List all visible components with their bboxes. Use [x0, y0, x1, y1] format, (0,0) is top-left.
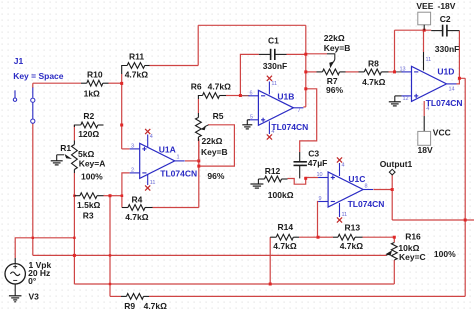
- potentiometer R7: [323, 69, 340, 75]
- source V3 sine: [10, 272, 20, 276]
- source V3 lead top: [14, 258, 16, 264]
- svg-text:10: 10: [317, 172, 323, 178]
- output terminal Output1: [389, 169, 395, 175]
- svg-text:12: 12: [403, 96, 409, 102]
- capacitor C1 leads: [259, 53, 271, 55]
- op-amp U1C pin4 stub: [339, 163, 341, 176]
- junction C1 left: [239, 94, 242, 97]
- junction U1D minus: [393, 70, 396, 73]
- potentiometer R1 leads: [73, 141, 75, 145]
- potentiometer R1 wiper: [57, 154, 64, 156]
- svg-text:TL074CN: TL074CN: [426, 98, 463, 108]
- op-amp U1A pin4 X: [145, 129, 150, 134]
- op-amp U1C pin11 stub: [339, 203, 341, 217]
- svg-text:4: 4: [342, 163, 345, 169]
- svg-text:C2: C2: [440, 14, 451, 24]
- wire V3 top: [15, 238, 74, 258]
- svg-text:V3: V3: [29, 291, 40, 301]
- svg-text:C3: C3: [308, 149, 319, 159]
- wire bottom-left corner to R9: [110, 295, 121, 297]
- wire bottom rail: [74, 283, 394, 285]
- VEE rail box: [418, 12, 431, 25]
- svg-text:TL074CN: TL074CN: [271, 122, 308, 132]
- svg-text:R1: R1: [60, 143, 71, 153]
- junction node B corner: [121, 194, 124, 197]
- resistor R2: [81, 122, 98, 128]
- node A vertical: [121, 74, 123, 149]
- svg-text:4.7kΩ: 4.7kΩ: [273, 241, 297, 251]
- wire U1D pin4 upper: [423, 101, 425, 116]
- svg-text:47µF: 47µF: [308, 158, 328, 168]
- svg-text:R4: R4: [132, 195, 143, 205]
- potentiometer R5: [196, 118, 202, 138]
- resistor R11 leads: [122, 66, 128, 75]
- svg-text:-18V: -18V: [438, 1, 456, 11]
- wire C1 right to node C: [287, 53, 306, 55]
- svg-text:U1D: U1D: [437, 67, 454, 77]
- wire R16 top: [393, 237, 395, 242]
- svg-text:Key=B: Key=B: [324, 43, 351, 53]
- svg-text:96%: 96%: [326, 85, 343, 95]
- svg-text:11: 11: [426, 57, 432, 63]
- svg-text:R2: R2: [83, 111, 94, 121]
- svg-text:9: 9: [319, 196, 322, 202]
- svg-text:4: 4: [150, 134, 153, 140]
- svg-text:330nF: 330nF: [435, 44, 460, 54]
- svg-text:Key=C: Key=C: [399, 252, 426, 262]
- svg-text:11: 11: [271, 81, 277, 87]
- resistor R11: [127, 63, 144, 69]
- wire node A to U1A pin3: [122, 148, 130, 150]
- wire R13 left wire: [318, 236, 333, 238]
- op-amp U1D pin11 stub: [423, 52, 425, 70]
- junction C1 right: [304, 53, 307, 56]
- resistor R6: [203, 93, 220, 99]
- ground U1D plus: [395, 95, 402, 97]
- svg-text:TL074CN: TL074CN: [348, 199, 385, 209]
- wire node B horizontal: [110, 195, 122, 197]
- resistor R12: [265, 176, 282, 182]
- wire U1C out: [374, 189, 393, 191]
- wire U1B out to node C: [303, 106, 305, 108]
- wire C2 right drop: [458, 31, 460, 79]
- wire node B vertical to R9: [109, 196, 111, 297]
- svg-text:J1: J1: [14, 56, 24, 66]
- svg-text:R8: R8: [368, 59, 379, 69]
- wire R11 right to top rail corner: [150, 65, 199, 67]
- wire VEE rail: [395, 29, 432, 31]
- svg-text:U1A: U1A: [159, 145, 176, 155]
- wire R14 right wire: [299, 236, 318, 238]
- wire R1 bottom to R3: [73, 173, 75, 196]
- svg-text:R9: R9: [124, 301, 135, 311]
- wire R7 wiper drop: [306, 53, 327, 55]
- svg-text:3: 3: [131, 143, 134, 149]
- junction R5 wiper: [197, 165, 200, 168]
- op-amp U1C: [328, 172, 363, 207]
- wire R12 jog to U1C plus: [288, 178, 319, 185]
- svg-text:Key=A: Key=A: [79, 159, 106, 169]
- capacitor C2 plates: [442, 25, 444, 37]
- resistor R2 leads: [74, 125, 80, 127]
- svg-text:1kΩ: 1kΩ: [84, 89, 100, 99]
- svg-text:Key=B: Key=B: [201, 147, 228, 157]
- svg-text:TL074CN: TL074CN: [160, 169, 197, 179]
- switch J1 left pin: [14, 90, 16, 97]
- svg-text:22kΩ: 22kΩ: [202, 136, 223, 146]
- wire node B down to R4: [121, 196, 123, 208]
- wire R10 right to node A: [109, 82, 122, 84]
- wire J1 top to R10: [33, 82, 81, 84]
- resistor R9 leads: [121, 295, 127, 297]
- wire J1 top corner: [32, 83, 34, 88]
- op-amp U1A pin4 stub: [147, 135, 149, 148]
- junction node B: [109, 194, 112, 197]
- resistor R13 leads: [333, 236, 338, 238]
- svg-text:330nF: 330nF: [263, 61, 288, 71]
- junction U1B out branch: [304, 87, 307, 90]
- svg-text:2: 2: [131, 167, 134, 173]
- svg-text:1.5kΩ: 1.5kΩ: [77, 200, 101, 210]
- svg-text:Key = Space: Key = Space: [13, 71, 64, 81]
- wire R6 right to node C2: [226, 95, 240, 97]
- wire R7-R8 link: [346, 71, 359, 73]
- potentiometer R5 leads: [197, 113, 199, 118]
- svg-text:22kΩ: 22kΩ: [324, 33, 345, 43]
- svg-text:100kΩ: 100kΩ: [268, 190, 294, 200]
- svg-text:C1: C1: [268, 35, 279, 45]
- potentiometer R1: [72, 145, 78, 170]
- junction U1C plus: [304, 177, 307, 180]
- wire U1D- riser: [394, 30, 396, 72]
- source V3 minus: [13, 279, 17, 281]
- junction R3 left: [73, 195, 75, 197]
- svg-text:8: 8: [365, 184, 368, 190]
- svg-text:11: 11: [150, 180, 156, 186]
- capacitor C2 leads: [431, 30, 442, 32]
- wire R5 top to R6 corner: [197, 99, 199, 113]
- op-amp U1A pin11 X: [145, 185, 150, 190]
- resistor R13: [338, 234, 355, 240]
- wire top rail: [198, 24, 306, 26]
- resistor R14: [276, 234, 293, 240]
- wire Output1 drop: [391, 175, 393, 220]
- svg-text:11: 11: [342, 212, 348, 218]
- wire U1C minus riser: [317, 202, 320, 238]
- svg-text:R3: R3: [83, 211, 94, 221]
- source V3 circle: [5, 264, 25, 284]
- junction R13 R14 U1C minus: [317, 236, 320, 239]
- svg-text:R10: R10: [87, 70, 103, 80]
- svg-text:7: 7: [298, 108, 301, 114]
- svg-text:R5: R5: [213, 111, 224, 121]
- op-amp U1B: [258, 90, 293, 125]
- svg-text:4.7kΩ: 4.7kΩ: [144, 301, 168, 311]
- junction U1A output: [197, 159, 200, 162]
- ground R1 wiper: [56, 155, 58, 161]
- svg-text:U1C: U1C: [348, 174, 365, 184]
- svg-text:4.7kΩ: 4.7kΩ: [362, 77, 386, 87]
- ground U1B plus: [247, 119, 250, 121]
- junction U1C out: [391, 188, 394, 191]
- junction VEE lead: [423, 29, 426, 32]
- junction R2 node A: [120, 124, 123, 127]
- wire R3 left riser down: [73, 196, 75, 284]
- resistor R14 leads: [270, 236, 276, 238]
- wire middle rail J1 to R16 wiper: [33, 254, 387, 256]
- capacitor C3 leads: [299, 152, 301, 162]
- wire R2 left riser: [73, 125, 75, 141]
- svg-text:5: 5: [250, 114, 253, 120]
- svg-text:6: 6: [250, 90, 253, 96]
- wire R9 right rail: [149, 295, 465, 297]
- wire U1A pin2 to node B: [122, 173, 130, 196]
- ground V3: [9, 295, 22, 297]
- resistor R8 leads: [359, 71, 365, 73]
- svg-text:VCC: VCC: [433, 128, 451, 138]
- wire R5 bottom: [198, 141, 200, 161]
- op-amp U1B pin4 X: [267, 134, 272, 139]
- svg-text:U1B: U1B: [277, 92, 294, 102]
- wire R4 right to U1A out riser: [153, 207, 199, 209]
- switch J1 poles: [31, 98, 35, 102]
- resistor R4 leads: [122, 207, 128, 209]
- svg-text:R14: R14: [278, 222, 294, 232]
- svg-text:0°: 0°: [28, 276, 37, 286]
- resistor R10: [87, 80, 103, 86]
- op-amp U1C pin11 X: [337, 217, 342, 222]
- potentiometer R5 wiper: [205, 125, 209, 127]
- svg-text:5kΩ: 5kΩ: [78, 149, 94, 159]
- svg-text:100%: 100%: [81, 172, 103, 182]
- svg-text:100%: 100%: [434, 249, 456, 259]
- svg-text:14: 14: [449, 87, 455, 93]
- svg-text:18V: 18V: [418, 145, 433, 155]
- wire right edge vertical: [464, 78, 466, 296]
- svg-text:Output1: Output1: [380, 159, 413, 169]
- svg-text:R16: R16: [405, 231, 421, 241]
- op-amp U1D: [412, 66, 447, 101]
- switch J1 blade: [32, 88, 34, 98]
- svg-text:R11: R11: [129, 51, 144, 61]
- svg-text:4.7kΩ: 4.7kΩ: [125, 70, 149, 80]
- ground R12: [257, 179, 259, 184]
- junction V3 J1 cross: [32, 237, 34, 239]
- resistor R3 leads: [74, 195, 80, 197]
- resistor R8: [364, 69, 381, 75]
- wire U1A out riser: [198, 139, 200, 208]
- op-amp U1B pin4 stub: [268, 121, 270, 134]
- wire Output1 rail right: [392, 219, 474, 221]
- wire J1 bottom: [32, 124, 34, 256]
- svg-text:R6: R6: [191, 81, 202, 91]
- wire top-rail riser: [197, 25, 199, 65]
- svg-text:4.7kΩ: 4.7kΩ: [208, 81, 232, 91]
- capacitor C3 plates: [294, 161, 307, 163]
- op-amp U1B pin11 X: [267, 76, 272, 81]
- potentiometer R7 leads: [317, 71, 323, 73]
- resistor R9: [127, 294, 144, 300]
- wire R3 right to node B: [104, 195, 111, 197]
- svg-text:R13: R13: [345, 223, 361, 233]
- svg-text:120Ω: 120Ω: [78, 129, 99, 139]
- junction input rail nodeB riser: [109, 254, 111, 256]
- wire R13 right wire: [363, 236, 395, 238]
- wire U1B out branch to C3: [300, 89, 317, 152]
- junction R13 R16: [393, 236, 396, 239]
- source V3 lead bottom: [14, 284, 16, 296]
- resistor R6 leads: [198, 96, 202, 100]
- wire R14 left riser: [269, 237, 271, 284]
- wire node C2 to U1B minus: [240, 95, 249, 97]
- svg-text:4.7kΩ: 4.7kΩ: [125, 212, 149, 222]
- junction R14 riser bottom: [269, 283, 272, 286]
- wire U1D out: [457, 78, 466, 84]
- op-amp U1A: [140, 143, 175, 178]
- resistor R3: [80, 193, 97, 199]
- resistor R12 leads: [258, 178, 264, 180]
- wire C1 left riser: [240, 54, 258, 95]
- source V3 plus: [13, 266, 17, 268]
- op-amp U1C pin4 X: [337, 157, 342, 162]
- potentiometer R16: [391, 243, 397, 261]
- svg-text:4.7kΩ: 4.7kΩ: [340, 241, 364, 251]
- junction bottom rail nodeB riser: [109, 283, 111, 285]
- wire U1D minus lead link: [395, 71, 403, 73]
- resistor R10 leads: [81, 82, 87, 84]
- svg-text:VEE: VEE: [416, 1, 433, 11]
- VCC rail box: [423, 116, 425, 131]
- junction input rail V-chain: [73, 254, 76, 257]
- wire R7 left lead wire: [306, 71, 317, 73]
- wire R5 wiper loop: [199, 125, 235, 166]
- junction V3 corner: [73, 237, 75, 239]
- op-amp U1A pin11 stub: [147, 174, 149, 185]
- svg-text:R12: R12: [265, 166, 281, 176]
- capacitor C1 plates: [270, 49, 272, 60]
- potentiometer R7 wiper arrow: [334, 60, 335, 63]
- op-amp U1B pin11 stub: [268, 82, 270, 95]
- svg-text:96%: 96%: [207, 171, 224, 181]
- svg-text:1: 1: [177, 155, 180, 161]
- wire R16 bottom: [393, 260, 395, 284]
- wire R8 right to U1D-: [389, 71, 395, 73]
- wire U1D pin11 to VEE rail: [423, 30, 425, 52]
- junction right rail cross: [464, 219, 467, 222]
- junction R7 left: [304, 70, 307, 73]
- junction R10 node A: [120, 82, 123, 85]
- potentiometer R16 wiper: [386, 250, 393, 255]
- junction U1D out: [458, 77, 461, 80]
- wire node C vertical: [305, 25, 307, 107]
- svg-text:13: 13: [400, 66, 406, 72]
- resistor R4: [128, 205, 145, 211]
- wire U1A out to riser: [185, 160, 199, 162]
